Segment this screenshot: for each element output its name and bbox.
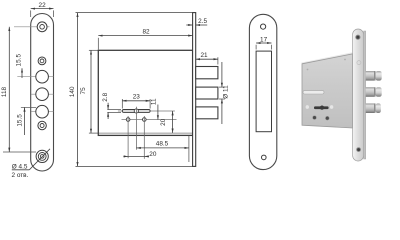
extension line y152 for dim 118 bottom: [3, 151, 36, 153]
dimension 140 (faceplate height): [69, 13, 78, 167]
photo bolt 1: [366, 71, 382, 81]
photo light groove: [303, 91, 324, 94]
centerline through screw hole A: [14, 26, 50, 28]
dimension 48.5: [136, 140, 189, 148]
photo faceplate bottom screw: [356, 147, 361, 152]
bolt 3 side view: [196, 107, 218, 119]
svg-text:11: 11: [151, 98, 158, 105]
svg-text:22: 22: [39, 2, 47, 9]
svg-text:75: 75: [80, 87, 87, 95]
strike plate top hole: [261, 24, 266, 29]
centerline through big hole 2: [31, 93, 54, 95]
photo light oval left of keyhole: [306, 105, 309, 109]
svg-text:118: 118: [1, 86, 8, 97]
photo faceplate side facet: [364, 31, 366, 159]
photo keyhole hub: [320, 106, 324, 110]
fixing hole left: [126, 118, 130, 122]
dimension 118 (between screw holes): [1, 27, 9, 152]
svg-text:17: 17: [260, 36, 268, 43]
dimension 17: [256, 36, 271, 49]
dimension 23 (keyway width): [122, 93, 150, 108]
fixing hole left tick / extension: [127, 116, 129, 158]
bolt 1 side view: [196, 67, 218, 79]
faceplate front outline: [31, 14, 54, 172]
dimension 20 right vertical: [160, 111, 172, 133]
photo keyhole slot: [314, 106, 329, 109]
svg-text:15.5: 15.5: [17, 114, 24, 127]
dimension 2.8 (keyway height): [102, 92, 121, 119]
big hole 2: [36, 88, 49, 101]
extension line x188.9 for 48.5: [188, 136, 190, 162]
strike plate bottom hole: [262, 155, 267, 160]
svg-text:20: 20: [149, 151, 157, 158]
dimension 75 (body height): [80, 50, 91, 133]
svg-text:15.5: 15.5: [16, 54, 23, 67]
extension lines for 75: [89, 50, 98, 133]
photo faceplate: [353, 29, 364, 161]
centerline through big hole 3: [31, 111, 54, 113]
small hole C: [38, 121, 46, 129]
bolt 2 side view: [196, 87, 218, 99]
dimension 21 (bolt throw): [196, 52, 218, 65]
extension line bottom (140): [76, 165, 196, 167]
photo bolt 3: [366, 103, 381, 113]
svg-text:21: 21: [200, 52, 208, 59]
dimension 15.5 top: [16, 54, 23, 78]
strike plate outline: [249, 14, 276, 169]
photo fixing hole right: [325, 116, 329, 120]
dimension 15.5 bottom: [17, 107, 25, 135]
svg-text:Ø 11: Ø 11: [223, 85, 230, 99]
photo body top face sliver: [301, 52, 352, 63]
extension line for 82 left: [97, 38, 99, 50]
svg-text:Ø 4.5: Ø 4.5: [12, 163, 28, 170]
small hole B: [38, 57, 46, 65]
dimension 20 bottom: [123, 151, 156, 158]
photo body screw dot 2: [344, 59, 346, 61]
fixing hole right tick / extension: [143, 116, 145, 159]
svg-text:20: 20: [160, 118, 167, 126]
extension line top (140): [76, 12, 196, 14]
dimension diameter 11 (bolt): [219, 62, 230, 124]
body bottom seam line: [99, 132, 192, 134]
screw hole D (bottom): [36, 150, 48, 162]
photo faceplate top screw: [355, 35, 360, 40]
big hole 3: [36, 105, 49, 118]
keyway hub circle: [134, 109, 138, 113]
dimension 11 (keyway to holes): [151, 98, 158, 120]
svg-text:140: 140: [69, 86, 76, 97]
svg-text:2 отв.: 2 отв.: [12, 172, 29, 179]
svg-text:2.8: 2.8: [102, 92, 109, 101]
faceplate side view: [193, 13, 196, 167]
photo bolt 2: [366, 87, 382, 97]
photo body screw dot 1: [307, 69, 309, 71]
photo lock body: [302, 54, 353, 128]
svg-text:2.5: 2.5: [198, 18, 207, 25]
keyway slot: [122, 110, 150, 113]
dimension 82 (body width): [98, 28, 192, 35]
centerline through big hole 1: [17, 76, 53, 78]
big hole 1: [36, 70, 49, 83]
fixing hole right: [143, 118, 147, 122]
photo fixing hole left: [313, 116, 317, 120]
extension line y107.4 for dim 15.5 bottom: [21, 106, 36, 108]
photo light oval right of keyhole: [330, 105, 333, 109]
svg-text:82: 82: [142, 28, 150, 35]
keyway vertical tick / extension to 48.5: [135, 107, 137, 150]
svg-text:48.5: 48.5: [156, 140, 169, 147]
lock body outline: [98, 50, 192, 135]
photo faceplate mid circle: [357, 61, 361, 65]
screw hole A (top): [37, 22, 47, 32]
strike plate inner rectangle: [256, 51, 271, 132]
fixing holes centerline horizontal: [122, 119, 177, 121]
svg-text:23: 23: [133, 93, 141, 100]
label diameter 4.5, 2 holes: [12, 149, 51, 179]
dimension 2.5 (faceplate thickness): [186, 18, 207, 25]
keyway centerline horizontal: [118, 110, 175, 112]
dimension 22 (plate width): [31, 2, 54, 17]
